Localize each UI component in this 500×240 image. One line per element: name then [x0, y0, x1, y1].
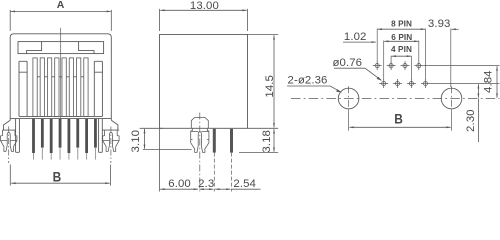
contact slot 3 — [47, 58, 51, 117]
dimension 3.18 line — [273, 129, 275, 152]
svg-text:B: B — [53, 168, 62, 184]
pin 1 — [32, 119, 35, 160]
pin 7 — [85, 119, 88, 160]
pin hole c3 — [401, 61, 410, 70]
contact slot 4 — [55, 58, 59, 117]
svg-text:2.3: 2.3 — [198, 178, 214, 190]
svg-text:2.30: 2.30 — [465, 109, 477, 132]
8 PIN dimension line — [378, 28, 425, 30]
svg-text:2-ø2.36: 2-ø2.36 — [288, 75, 328, 87]
B extension below right hole — [451, 111, 453, 131]
side view body rectangle — [160, 35, 248, 129]
svg-text:3.93: 3.93 — [428, 18, 451, 30]
1.02 leader line with arrow — [343, 41, 376, 43]
svg-text:6 PIN: 6 PIN — [391, 33, 412, 42]
svg-text:1.02: 1.02 — [344, 31, 367, 43]
pin hole b2 — [393, 79, 402, 88]
extension line above b1 — [383, 41, 385, 80]
6 PIN dimension line — [384, 40, 418, 42]
right flange — [102, 120, 119, 130]
svg-text:8 PIN: 8 PIN — [391, 19, 412, 28]
B extension below left hole — [348, 111, 350, 131]
latch window right step — [79, 42, 94, 54]
right snap peg (front) — [103, 127, 119, 164]
pin 3 — [50, 119, 53, 160]
14.5/3.18 middle extension — [248, 127, 279, 129]
peg centerline / 6.00 extension — [199, 113, 201, 192]
vertical centerline of front view — [60, 28, 62, 139]
svg-text:A: A — [57, 0, 65, 11]
14.5 top extension — [248, 34, 279, 36]
right mounting hole — [441, 86, 462, 110]
pin hole c1 — [373, 61, 382, 70]
left mounting hole — [338, 86, 359, 110]
extension line above c2 — [390, 56, 392, 62]
extension line above right mounting hole — [450, 29, 452, 88]
bottom dimension line 6.00/2.3/2.54 — [160, 188, 198, 190]
dimension 13.00 line — [160, 9, 246, 11]
dimension A line — [11, 10, 111, 12]
4 PIN dimension line — [392, 55, 411, 57]
pin hole b1 — [379, 79, 388, 88]
svg-text:B: B — [394, 111, 403, 127]
svg-text:6.00: 6.00 — [168, 178, 191, 190]
dimension B (footprint) line — [349, 126, 450, 128]
top row extension to 4.84 — [424, 65, 500, 67]
pin 8 — [94, 119, 97, 160]
Ø0.76 leader — [334, 68, 381, 80]
dimension 4.84 line — [496, 66, 498, 98]
right lower wall block — [99, 119, 103, 153]
extension line above c1 — [376, 29, 378, 62]
pin 4 — [59, 119, 62, 160]
contact slot 7 — [77, 58, 81, 117]
extension line above c4 — [418, 41, 420, 62]
3.10 lower extension line — [143, 148, 192, 150]
pin hole c2 — [387, 61, 396, 70]
2-Ø2.36 leader — [287, 86, 341, 92]
snap peg (side view) prongs — [191, 128, 209, 152]
svg-text:3.10: 3.10 — [130, 130, 142, 153]
left flange — [2, 120, 15, 130]
dimension 14.5 line — [273, 35, 275, 127]
13.00 left extension — [159, 9, 161, 31]
svg-text:3.18: 3.18 — [261, 130, 273, 153]
pin hole c4 — [414, 61, 423, 70]
extension line above b3 — [410, 56, 412, 80]
slot gap ticks — [37, 76, 84, 78]
latch window outline — [18, 42, 104, 54]
dimension B left extension — [9, 165, 11, 186]
body bottom line — [10, 118, 111, 120]
latch window left step — [27, 42, 42, 54]
extension line above b4 — [425, 29, 427, 80]
pin 5 — [68, 119, 71, 160]
2.30 line tail — [477, 99, 479, 143]
dimension B line — [11, 182, 110, 184]
right wall strip — [94, 61, 102, 116]
3.18 bottom extension — [239, 152, 278, 154]
dimension 2.30 line — [477, 84, 479, 98]
contact slot 1 — [33, 58, 37, 117]
cavity bottom line — [19, 115, 102, 117]
svg-text:4 PIN: 4 PIN — [391, 45, 412, 54]
svg-text:4.84: 4.84 — [482, 70, 494, 93]
side view pin 1 — [213, 129, 216, 192]
side view pin 2 — [230, 129, 233, 192]
svg-text:2.54: 2.54 — [233, 178, 256, 190]
connector body outline (front) — [10, 34, 111, 120]
3.10 dimension line — [144, 129, 146, 149]
pin hole b4 — [421, 79, 430, 88]
svg-text:14.5: 14.5 — [264, 75, 276, 98]
pin hole b3 — [407, 79, 416, 88]
contact slot 2 — [40, 58, 44, 117]
snap peg (side view) collar — [191, 118, 208, 129]
contact slot 6 — [69, 58, 73, 117]
left lower wall block — [16, 119, 20, 153]
dimension A left extension line — [9, 10, 11, 31]
pin 2 — [41, 119, 44, 160]
extension of left body edge down to 6.00 dimension — [159, 128, 161, 191]
3.10 upper extension line — [140, 127, 163, 129]
contact slot 8 — [84, 58, 88, 117]
contact slot 5 — [62, 58, 66, 117]
left snap peg (front) — [1, 127, 17, 164]
svg-text:ø0.76: ø0.76 — [332, 57, 362, 69]
3.93 dimension segment with outside arrow — [451, 28, 458, 30]
left wall strip — [19, 61, 27, 116]
13.00 right extension — [247, 9, 249, 31]
dimension A right extension line — [110, 10, 112, 31]
horizontal centerline — [291, 98, 500, 100]
dimension B right extension — [110, 165, 112, 186]
pin 6 — [76, 119, 79, 160]
bottom row extension to 2.30 — [430, 83, 500, 85]
